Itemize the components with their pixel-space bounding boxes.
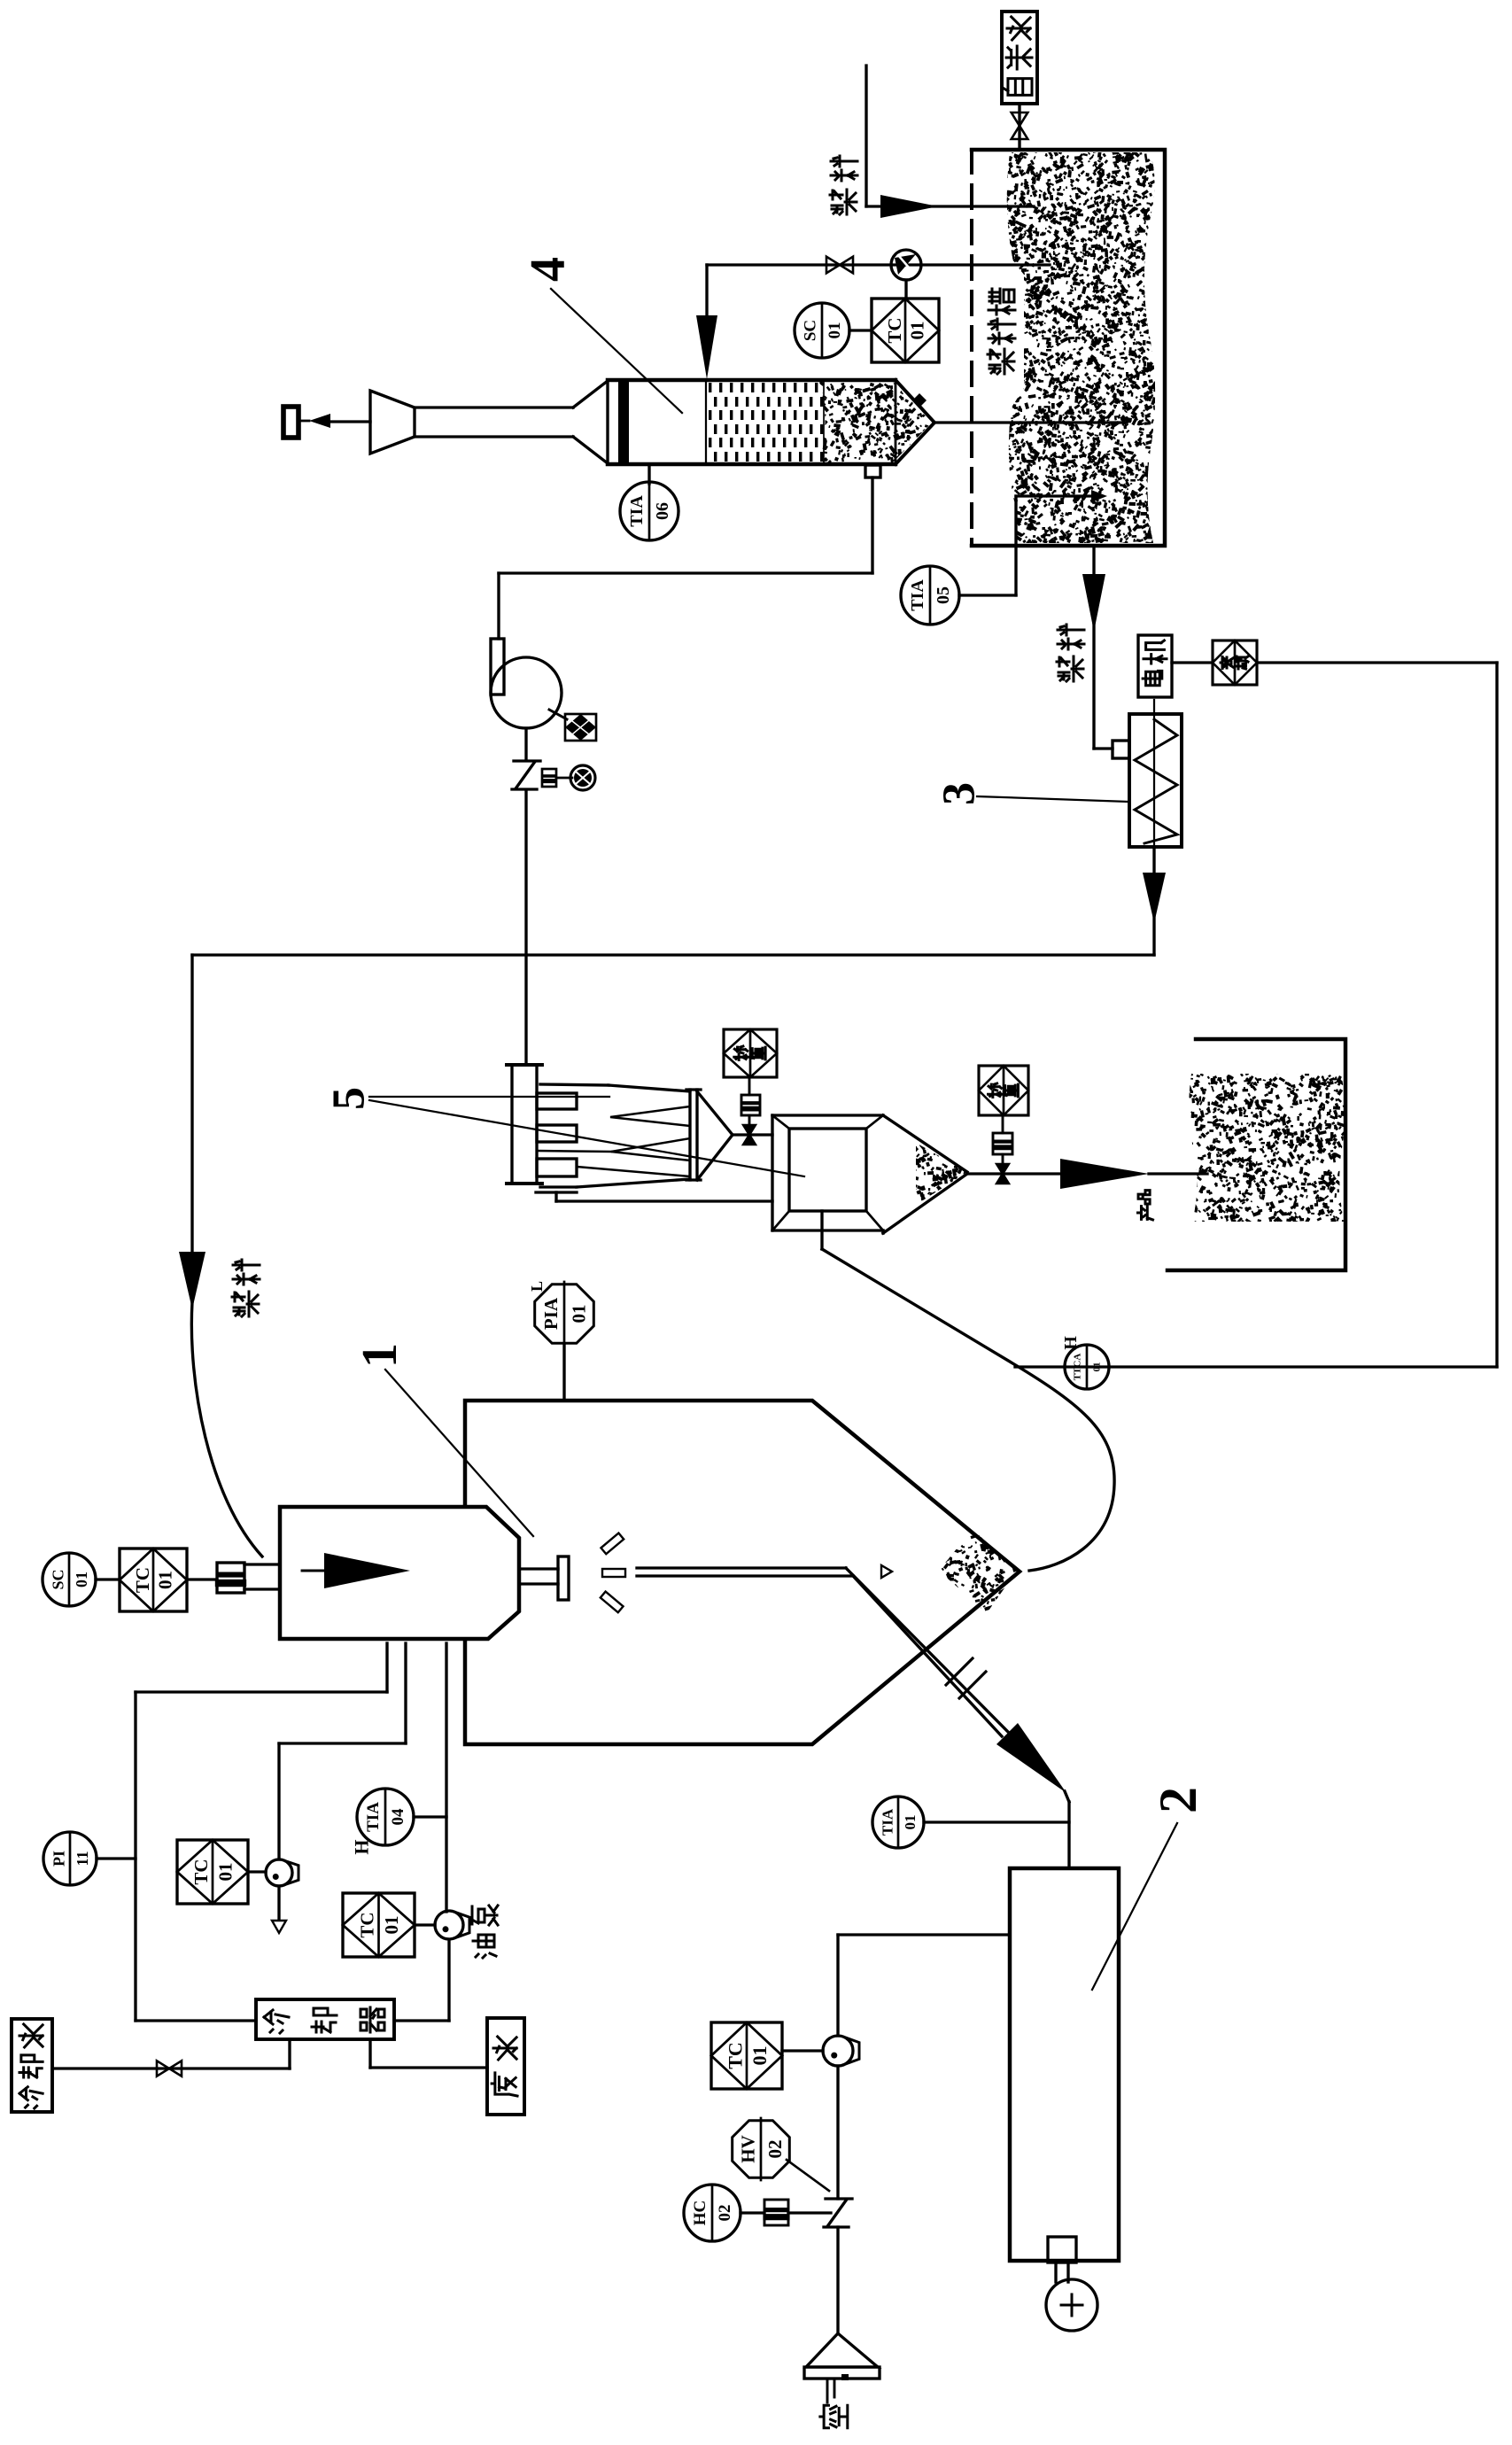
svg-text:01: 01 — [569, 1305, 590, 1323]
svg-text:02: 02 — [764, 2140, 786, 2159]
svg-text:01: 01 — [907, 322, 928, 340]
svg-text:TC: TC — [190, 1859, 212, 1884]
svg-text:06: 06 — [653, 502, 672, 520]
svg-text:01: 01 — [748, 2046, 771, 2066]
svg-text:H: H — [1061, 1336, 1081, 1350]
svg-text:HC: HC — [691, 2200, 709, 2226]
svg-text:01: 01 — [1092, 1362, 1103, 1372]
svg-text:PIA: PIA — [540, 1297, 562, 1330]
svg-text:TC: TC — [725, 2042, 747, 2069]
svg-text:3: 3 — [934, 782, 985, 805]
svg-text:TTCA: TTCA — [1073, 1354, 1083, 1381]
svg-text:01: 01 — [826, 322, 844, 339]
svg-text:05: 05 — [934, 586, 953, 604]
svg-text:01: 01 — [155, 1571, 176, 1589]
svg-text:TC: TC — [132, 1567, 153, 1593]
svg-text:01: 01 — [73, 1572, 90, 1587]
svg-text:TIA: TIA — [879, 1808, 896, 1836]
svg-text:2: 2 — [1149, 1787, 1207, 1813]
svg-text:11: 11 — [74, 1851, 91, 1866]
svg-text:4: 4 — [521, 257, 576, 282]
svg-text:SC: SC — [801, 320, 819, 341]
svg-text:TIA: TIA — [627, 495, 647, 527]
svg-text:TC: TC — [357, 1912, 378, 1937]
svg-text:HV: HV — [737, 2135, 758, 2163]
svg-text:L: L — [528, 1281, 546, 1292]
svg-text:TC: TC — [884, 317, 905, 343]
svg-text:01: 01 — [214, 1863, 236, 1882]
svg-text:PI: PI — [50, 1851, 67, 1867]
svg-text:TIA: TIA — [364, 1802, 383, 1832]
svg-text:01: 01 — [902, 1815, 919, 1830]
svg-text:SC: SC — [49, 1569, 66, 1589]
svg-text:04: 04 — [389, 1808, 407, 1826]
svg-text:02: 02 — [716, 2205, 734, 2222]
svg-text:H: H — [351, 1839, 373, 1854]
svg-text:1: 1 — [353, 1343, 407, 1368]
svg-text:01: 01 — [381, 1916, 402, 1935]
svg-text:5: 5 — [324, 1087, 375, 1110]
svg-text:TIA: TIA — [908, 579, 927, 611]
